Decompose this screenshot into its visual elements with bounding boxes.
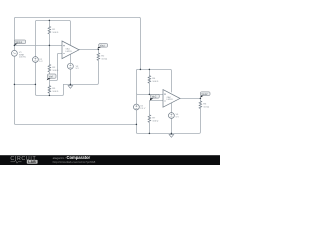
svg-text:Vinput: Vinput	[15, 41, 22, 44]
svg-text:100 Ω: 100 Ω	[52, 70, 58, 72]
svg-text:Vin2: Vin2	[152, 95, 157, 98]
svg-text:2.5 V: 2.5 V	[140, 108, 146, 110]
svg-text:10 kΩ: 10 kΩ	[203, 107, 209, 109]
svg-text:LAB: LAB	[28, 160, 36, 164]
svg-text:100 Ω: 100 Ω	[52, 32, 58, 34]
svg-text:100 Ω: 100 Ω	[152, 120, 158, 122]
svg-text:10 kΩ: 10 kΩ	[101, 58, 107, 60]
svg-text:5 V: 5 V	[76, 68, 80, 70]
svg-text:100 Ω: 100 Ω	[52, 91, 58, 93]
svg-text:Vout: Vout	[100, 45, 105, 48]
svg-text:LM311: LM311	[167, 99, 174, 101]
svg-text:100 Ω: 100 Ω	[152, 81, 158, 83]
svg-text:5 V: 5 V	[176, 117, 180, 119]
svg-text:100 Hz: 100 Hz	[19, 57, 26, 59]
svg-text:LM311: LM311	[66, 51, 73, 53]
svg-text:http:/∕circuitlab.com/c/cm7pn5: http:/∕circuitlab.com/c/cm7pn5b8	[53, 160, 96, 164]
svg-text:Vout2: Vout2	[201, 93, 208, 96]
svg-text:5 V: 5 V	[39, 61, 43, 63]
svg-text:Vref: Vref	[49, 75, 54, 78]
